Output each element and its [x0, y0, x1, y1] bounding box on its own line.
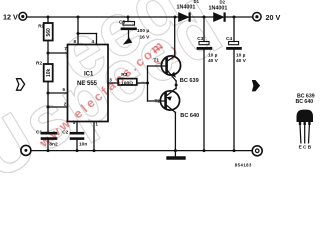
svg-text:R3: R3 [121, 72, 127, 78]
svg-text:C5: C5 [119, 20, 125, 26]
svg-text:3: 3 [109, 77, 112, 82]
svg-text:4: 4 [92, 39, 95, 44]
svg-text:NE 555: NE 555 [77, 81, 98, 87]
svg-text:R1: R1 [38, 23, 44, 28]
svg-text:1: 1 [95, 122, 98, 127]
svg-text:16 V: 16 V [140, 34, 151, 40]
svg-text:10k: 10k [46, 68, 52, 77]
svg-text:560: 560 [46, 28, 52, 37]
svg-text:7: 7 [64, 46, 67, 51]
svg-text:C2: C2 [62, 130, 68, 136]
svg-text:T1: T1 [154, 57, 160, 63]
svg-text:IC1: IC1 [84, 72, 94, 78]
svg-text:1N4001: 1N4001 [209, 5, 228, 11]
svg-text:6: 6 [63, 87, 66, 92]
svg-text:12 V: 12 V [3, 13, 18, 22]
svg-text:10n: 10n [79, 142, 87, 148]
svg-text:C3: C3 [197, 36, 203, 42]
svg-text:10 µ: 10 µ [208, 53, 218, 59]
svg-text:40 V: 40 V [208, 58, 219, 64]
svg-text:10 µ: 10 µ [236, 53, 246, 59]
svg-text:T2: T2 [155, 99, 161, 105]
svg-text:C4: C4 [226, 36, 232, 42]
svg-text:ECB: ECB [299, 145, 313, 150]
svg-text:C1: C1 [36, 130, 42, 136]
svg-text:20 V: 20 V [266, 13, 281, 22]
svg-text:40 V: 40 V [236, 58, 247, 64]
svg-text:854183: 854183 [235, 163, 252, 168]
svg-text:100Ω: 100Ω [121, 81, 133, 87]
svg-text:BC 640: BC 640 [296, 99, 314, 105]
svg-text:D2: D2 [220, 0, 226, 5]
svg-text:5: 5 [73, 120, 76, 125]
svg-text:BC 639: BC 639 [180, 78, 199, 84]
svg-text:8n2: 8n2 [49, 142, 58, 148]
svg-text:2: 2 [64, 102, 67, 107]
svg-text:100 µ: 100 µ [137, 28, 149, 34]
svg-text:BC 640: BC 640 [180, 113, 199, 119]
svg-text:R2: R2 [36, 61, 42, 67]
svg-text:8: 8 [74, 39, 77, 44]
svg-text:1N4001: 1N4001 [177, 4, 196, 10]
